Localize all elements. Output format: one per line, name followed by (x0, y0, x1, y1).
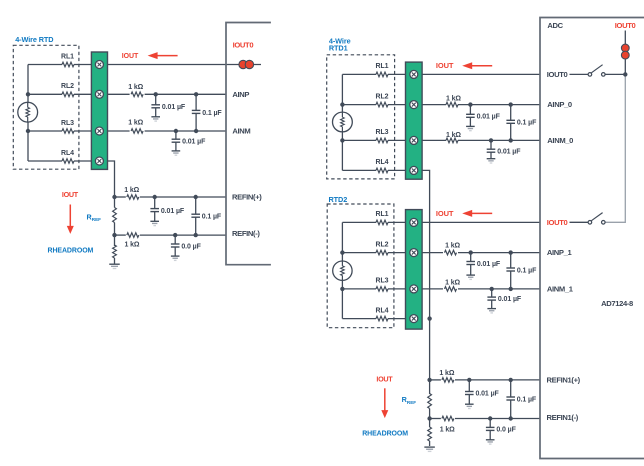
capacitor 0.01uF REFIN+ (150, 197, 159, 226)
capacitor 0.1uF AINP_1-AINM_1 (506, 253, 515, 289)
svg-text:1 kΩ: 1 kΩ (446, 132, 461, 139)
resistor RL4 RTD1 (376, 168, 388, 173)
RTD1 dashed box (327, 55, 395, 179)
wire REFIN1+ row (430, 379, 540, 381)
capacitor 0.01uF REFIN1+ (465, 380, 474, 409)
label RHEADROOM left (48, 248, 94, 255)
node AINM_1 cap junction (490, 287, 494, 291)
svg-text:0.01 µF: 0.01 µF (161, 208, 185, 215)
wire RL4 to rail (108, 161, 115, 197)
pin label IOUT0 switch1 (547, 70, 568, 79)
RTD2 element (333, 261, 352, 280)
wire AINP row (108, 93, 227, 95)
svg-text:REFIN1(-): REFIN1(-) (547, 413, 579, 422)
node RTD top junction (26, 92, 30, 96)
terminal T2 left block (95, 90, 103, 98)
svg-text:IOUT: IOUT (62, 190, 79, 199)
label RL2 (61, 83, 74, 90)
pin label REFIN1(-) (547, 413, 579, 422)
resistor RL1 RTD1 (376, 72, 388, 77)
label 0.1uF RTD1 (517, 120, 537, 127)
svg-text:0.0 µF: 0.0 µF (181, 243, 201, 250)
resistor 1k AINP_1 (445, 250, 457, 255)
capacitor 0.1uF AINP-AINM (192, 94, 201, 131)
label 1k AINM_1 (445, 280, 460, 287)
svg-text:0.01 µF: 0.01 µF (497, 148, 521, 155)
switch IOUT0 first (570, 65, 606, 77)
svg-text:0.01 µF: 0.01 µF (476, 391, 500, 398)
capacitor 0.01uF AINM (172, 131, 181, 155)
wire row RL1 RTD1 (342, 73, 405, 75)
terminal T3 RTD2 block (410, 285, 418, 293)
wire IOUT0 top lead (624, 31, 626, 45)
node REFIN1+ cap junction (467, 378, 471, 382)
resistor RL2 RTD2 (376, 250, 388, 255)
wire IOUT row RTD1 (422, 73, 540, 75)
capacitor 0.1uF AINP_0-AINM_0 (506, 105, 515, 141)
arrow IOUT down left (67, 205, 74, 234)
node RTD2 bottom junction (340, 287, 344, 291)
wire row RL2 RTD2 (342, 252, 405, 254)
resistor RL1 RTD2 (376, 220, 388, 225)
light rail IOUT0 (605, 74, 625, 222)
RTD element (18, 102, 38, 122)
svg-text:RTD2: RTD2 (329, 195, 348, 204)
RTD2 dashed box (327, 204, 394, 328)
connector red pair left (239, 60, 254, 68)
terminal T1 RTD1 block (410, 70, 418, 78)
capacitor 0.01uF AINP (151, 94, 160, 121)
label IOUT0 top right (615, 21, 636, 30)
svg-text:1 kΩ: 1 kΩ (124, 187, 139, 194)
label RL1 RTD1 (376, 63, 389, 70)
terminal T3 left block (95, 127, 103, 135)
pin label AINP_1 (547, 248, 573, 257)
svg-text:RL2: RL2 (376, 93, 389, 100)
node RTD bottom junction (26, 129, 30, 133)
svg-text:AINM_1: AINM_1 (547, 284, 574, 293)
label IOUT left (122, 53, 139, 60)
wire RTD2 left vertical (341, 222, 343, 318)
svg-text:REF: REF (407, 400, 416, 405)
label 0.1uF REFIN (202, 214, 222, 221)
label RL1 RTD2 (376, 211, 389, 218)
label 1k AINP (128, 84, 143, 91)
node REFIN1- 0.1uF junction (509, 416, 513, 420)
pin label REFIN(+) (232, 193, 262, 202)
label ADC (547, 21, 563, 30)
node RTD1 top junction (340, 102, 344, 106)
wire row RL1 RTD2 (342, 221, 405, 223)
label 1k REFIN1+ (439, 370, 454, 377)
label 0.01uF AINM_1 (498, 296, 522, 303)
resistor 1k REFIN+ (127, 195, 139, 200)
terminal block 1 (left) (91, 52, 107, 169)
svg-text:1 kΩ: 1 kΩ (125, 241, 140, 248)
node AINM cap junction (174, 129, 178, 133)
resistor RL2 (62, 92, 74, 97)
label 0.01uF REFIN+ (161, 208, 185, 215)
resistor RL1 (62, 62, 74, 67)
wire AINM_1 row (422, 288, 540, 290)
label RL4 RTD2 (376, 307, 389, 314)
svg-text:IOUT: IOUT (376, 375, 393, 384)
label 0.01uF REFIN1+ (476, 391, 500, 398)
node AINP_0 0.1uF junction (509, 102, 513, 106)
svg-text:IOUT0: IOUT0 (547, 70, 568, 79)
terminal T4 left block (95, 157, 103, 165)
pin label AINM (232, 127, 250, 136)
label 1k AINP_1 (445, 243, 460, 250)
svg-text:RL4: RL4 (61, 150, 74, 157)
svg-text:RTD1: RTD1 (329, 44, 348, 53)
label RL2 RTD2 (376, 241, 389, 248)
wire AINM row (108, 130, 227, 132)
label RTD2 (329, 195, 348, 204)
capacitor 0.01uF AINM_1 (487, 289, 496, 313)
label 0.1uF left top (202, 110, 222, 117)
label 0.01uF AINM_0 (497, 148, 521, 155)
node AINP 0.1uF junction (194, 92, 198, 96)
label 0.0uF REFIN1- (496, 427, 516, 434)
RTD sensor dashed box (13, 45, 79, 169)
svg-text:IOUT0: IOUT0 (615, 21, 636, 30)
label RL4 RTD1 (376, 159, 389, 166)
label RL4 (61, 150, 74, 157)
capacitor 0.1uF REFIN (191, 197, 200, 235)
wire IOUT row1 left (108, 64, 262, 66)
RTD1 element (333, 112, 353, 132)
svg-text:0.0 µF: 0.0 µF (496, 427, 516, 434)
svg-text:RL3: RL3 (376, 278, 389, 285)
label 0.0uF REFIN- (181, 243, 201, 250)
svg-text:RL1: RL1 (376, 211, 389, 218)
label 1k REFIN- (125, 241, 140, 248)
capacitor 0.01uF AINP_1 (466, 253, 475, 280)
svg-text:0.01 µF: 0.01 µF (498, 296, 522, 303)
svg-text:1 kΩ: 1 kΩ (440, 426, 455, 433)
svg-text:0.01 µF: 0.01 µF (182, 138, 206, 145)
resistor 1k AINP (131, 92, 143, 97)
node RTD2 top junction (340, 250, 344, 254)
svg-text:1 kΩ: 1 kΩ (446, 96, 461, 103)
label RL2 RTD1 (376, 93, 389, 100)
resistor RREF left (113, 197, 117, 235)
svg-text:0.1 µF: 0.1 µF (517, 396, 537, 403)
svg-text:REFIN1(+): REFIN1(+) (547, 375, 581, 384)
wire row RL2 RTD1 (342, 104, 405, 106)
wire switch1 to rail (605, 73, 625, 75)
svg-text:RL4: RL4 (376, 307, 389, 314)
label RL3 RTD1 (376, 129, 389, 136)
wire row RL4 RTD2 (342, 318, 405, 320)
label 4-Wire RTD1 (329, 37, 351, 53)
svg-text:4-Wire RTD: 4-Wire RTD (15, 35, 53, 44)
label 0.01uF AINP (162, 104, 186, 111)
terminal T4 RTD1 block (410, 166, 418, 174)
wire RL4 RTD1 to rail (422, 170, 430, 380)
terminal T2 RTD1 block (410, 101, 418, 109)
svg-text:0.01 µF: 0.01 µF (162, 104, 186, 111)
terminal T1 RTD2 block (410, 218, 418, 226)
wire IOUT row RTD2 (422, 221, 540, 223)
label 0.01uF AINP_1 (477, 261, 501, 268)
label IOUT bottom right (376, 375, 393, 384)
capacitor 0.0uF REFIN1- (486, 419, 495, 445)
node AINM_0 0.1uF junction (509, 138, 513, 142)
svg-text:RL4: RL4 (376, 159, 389, 166)
node REFIN- main junction (112, 233, 116, 237)
pin label AINP_0 (547, 100, 572, 109)
wire row RL3 RTD2 (342, 288, 405, 290)
svg-text:RL2: RL2 (376, 241, 389, 248)
wire REFIN1- row (430, 418, 540, 420)
resistor 1k AINM_0 (446, 138, 458, 143)
label RL3 (61, 120, 74, 127)
pin label REFIN1(+) (547, 375, 581, 384)
svg-text:0.1 µF: 0.1 µF (202, 110, 222, 117)
svg-text:ADC: ADC (547, 21, 563, 30)
pin label AINP (232, 90, 249, 99)
ground left main (109, 264, 120, 268)
switch IOUT0 second (570, 213, 606, 225)
node rail RTD2 junction (427, 316, 431, 320)
connector red pair right (621, 44, 629, 59)
resistor 1k REFIN1+ (442, 378, 454, 383)
capacitor 0.01uF AINM_0 (487, 140, 496, 163)
resistor RL3 RTD1 (376, 138, 388, 143)
arrow IOUT RTD2 (462, 210, 492, 217)
label RHEADROOM right (362, 431, 408, 438)
label 0.01uF AINP_0 (477, 113, 501, 120)
wire AINM_0 row (422, 139, 540, 141)
wire row RL3 RTD1 (342, 139, 405, 141)
node AINP_1 0.1uF junction (509, 250, 513, 254)
svg-text:1 kΩ: 1 kΩ (445, 280, 460, 287)
svg-text:1 kΩ: 1 kΩ (128, 119, 143, 126)
resistor RL3 RTD2 (376, 287, 388, 292)
svg-text:IOUT: IOUT (436, 209, 454, 218)
resistor 1k to ground right (428, 419, 432, 447)
svg-text:REFIN(+): REFIN(+) (232, 193, 262, 202)
label IOUT RTD1 (436, 61, 454, 70)
svg-text:RL3: RL3 (376, 129, 389, 136)
ground right main (424, 447, 435, 451)
svg-text:AINP_1: AINP_1 (547, 248, 573, 257)
svg-text:0.1 µF: 0.1 µF (517, 267, 537, 274)
label IOUT RTD2 (436, 209, 454, 218)
label 1k REFIN1- (440, 426, 455, 433)
resistor 1k REFIN1- (442, 416, 454, 421)
wire AINP_0 row (422, 104, 540, 106)
svg-text:IOUT: IOUT (122, 53, 139, 60)
terminal T3 RTD1 block (410, 136, 418, 144)
wire AINP_1 row (422, 252, 540, 254)
label 0.1uF REFIN1 (517, 396, 537, 403)
terminal T2 RTD2 block (410, 249, 418, 257)
svg-text:1 kΩ: 1 kΩ (445, 243, 460, 250)
svg-text:RL2: RL2 (61, 83, 74, 90)
svg-text:REFIN(-): REFIN(-) (232, 229, 260, 238)
svg-text:RL1: RL1 (376, 63, 389, 70)
label RL3 RTD2 (376, 278, 389, 285)
label 1k REFIN+ (124, 187, 139, 194)
label RL1 (61, 53, 74, 60)
terminal block RTD1 (406, 62, 423, 179)
resistor RL3 (62, 129, 74, 134)
ADC box left (clipped) (226, 23, 271, 265)
wire red pair to junction (624, 59, 626, 75)
resistor RREF right (428, 380, 432, 419)
resistor RL2 RTD1 (376, 102, 388, 107)
wire RTD left vertical (27, 65, 29, 162)
svg-text:RHEADROOM: RHEADROOM (362, 431, 408, 438)
wire row RL3 (28, 130, 91, 132)
capacitor 0.0uF REFIN- (171, 235, 180, 260)
svg-text:1 kΩ: 1 kΩ (128, 84, 143, 91)
wire REFIN+ row (115, 196, 227, 198)
ADC box (clipped right) (540, 18, 644, 459)
label 1k AINP_0 (446, 96, 461, 103)
svg-text:0.1 µF: 0.1 µF (202, 214, 222, 221)
wire REFIN- row (115, 234, 227, 236)
terminal T4 RTD2 block (410, 315, 418, 323)
capacitor 0.01uF AINP_0 (466, 105, 475, 131)
node AINP_1 cap junction (469, 250, 473, 254)
node REFIN+ cap junction (153, 195, 157, 199)
resistor 1k REFIN- (127, 233, 139, 238)
node AINM_1 0.1uF junction (509, 287, 513, 291)
label RREF right (402, 395, 417, 405)
node REFIN1- main junction (427, 416, 431, 420)
pin label AINM_1 (547, 284, 574, 293)
node AINM 0.1uF junction (194, 129, 198, 133)
label AD7124-8 (601, 299, 633, 308)
terminal block RTD2 (406, 210, 423, 330)
capacitor 0.1uF REFIN1 (506, 380, 515, 419)
svg-text:AINP: AINP (232, 90, 249, 99)
svg-text:0.1 µF: 0.1 µF (517, 120, 537, 127)
wire RTD1 left vertical (341, 74, 343, 170)
arrow IOUT RTD1 (462, 62, 492, 69)
svg-text:RL1: RL1 (61, 53, 74, 60)
label 1k AINM (128, 119, 143, 126)
pin label AINM_0 (547, 136, 573, 145)
node AINP_0 cap junction (468, 102, 472, 106)
svg-text:REF: REF (92, 217, 101, 222)
resistor RL4 RTD2 (376, 316, 388, 321)
wire row RL1 (28, 64, 91, 66)
svg-text:IOUT0: IOUT0 (547, 218, 568, 227)
node REFIN+ main junction (112, 195, 116, 199)
svg-text:0.01 µF: 0.01 µF (477, 261, 501, 268)
pin label REFIN(-) (232, 229, 260, 238)
svg-text:AINM: AINM (232, 127, 250, 136)
svg-text:RL3: RL3 (61, 120, 74, 127)
label RREF left (87, 212, 102, 222)
label 4-Wire RTD (15, 35, 53, 44)
wire row RL4 RTD1 (342, 169, 405, 171)
resistor 1k to ground left (113, 235, 117, 264)
resistor 1k AINM (131, 129, 143, 134)
svg-text:RHEADROOM: RHEADROOM (48, 248, 94, 255)
resistor 1k AINM_1 (445, 287, 457, 292)
node REFIN1+ 0.1uF junction (509, 378, 513, 382)
svg-text:1 kΩ: 1 kΩ (439, 370, 454, 377)
resistor RL4 (62, 159, 74, 164)
svg-text:AINP_0: AINP_0 (547, 100, 572, 109)
pin label IOUT0 left (233, 40, 254, 49)
arrow IOUT down right (381, 388, 388, 418)
label 1k AINM_0 (446, 132, 461, 139)
node AINP cap junction (154, 92, 158, 96)
node REFIN1- cap junction (488, 416, 492, 420)
node REFIN- cap junction (173, 233, 177, 237)
node switch1 rail junction (623, 72, 627, 76)
node REFIN- 0.1uF junction (194, 233, 198, 237)
node REFIN1+ main junction (427, 378, 431, 382)
svg-text:0.01 µF: 0.01 µF (477, 113, 501, 120)
node AINM_0 cap junction (489, 138, 493, 142)
node RTD1 bottom junction (340, 138, 344, 142)
arrow IOUT left (148, 52, 178, 59)
label 0.1uF RTD2 (517, 267, 537, 274)
label IOUT bottom left (62, 190, 79, 199)
node REFIN+ 0.1uF junction (194, 195, 198, 199)
label 0.01uF AINM (182, 138, 206, 145)
wire row RL4 (28, 160, 91, 162)
terminal T1 left block (95, 61, 103, 69)
wire row RL2 (28, 93, 91, 95)
svg-text:AINM_0: AINM_0 (547, 136, 573, 145)
svg-text:AD7124-8: AD7124-8 (601, 299, 633, 308)
pin label IOUT0 switch2 (547, 218, 568, 227)
resistor 1k AINP_0 (446, 102, 458, 107)
svg-text:IOUT0: IOUT0 (233, 40, 254, 49)
svg-text:IOUT: IOUT (436, 61, 454, 70)
